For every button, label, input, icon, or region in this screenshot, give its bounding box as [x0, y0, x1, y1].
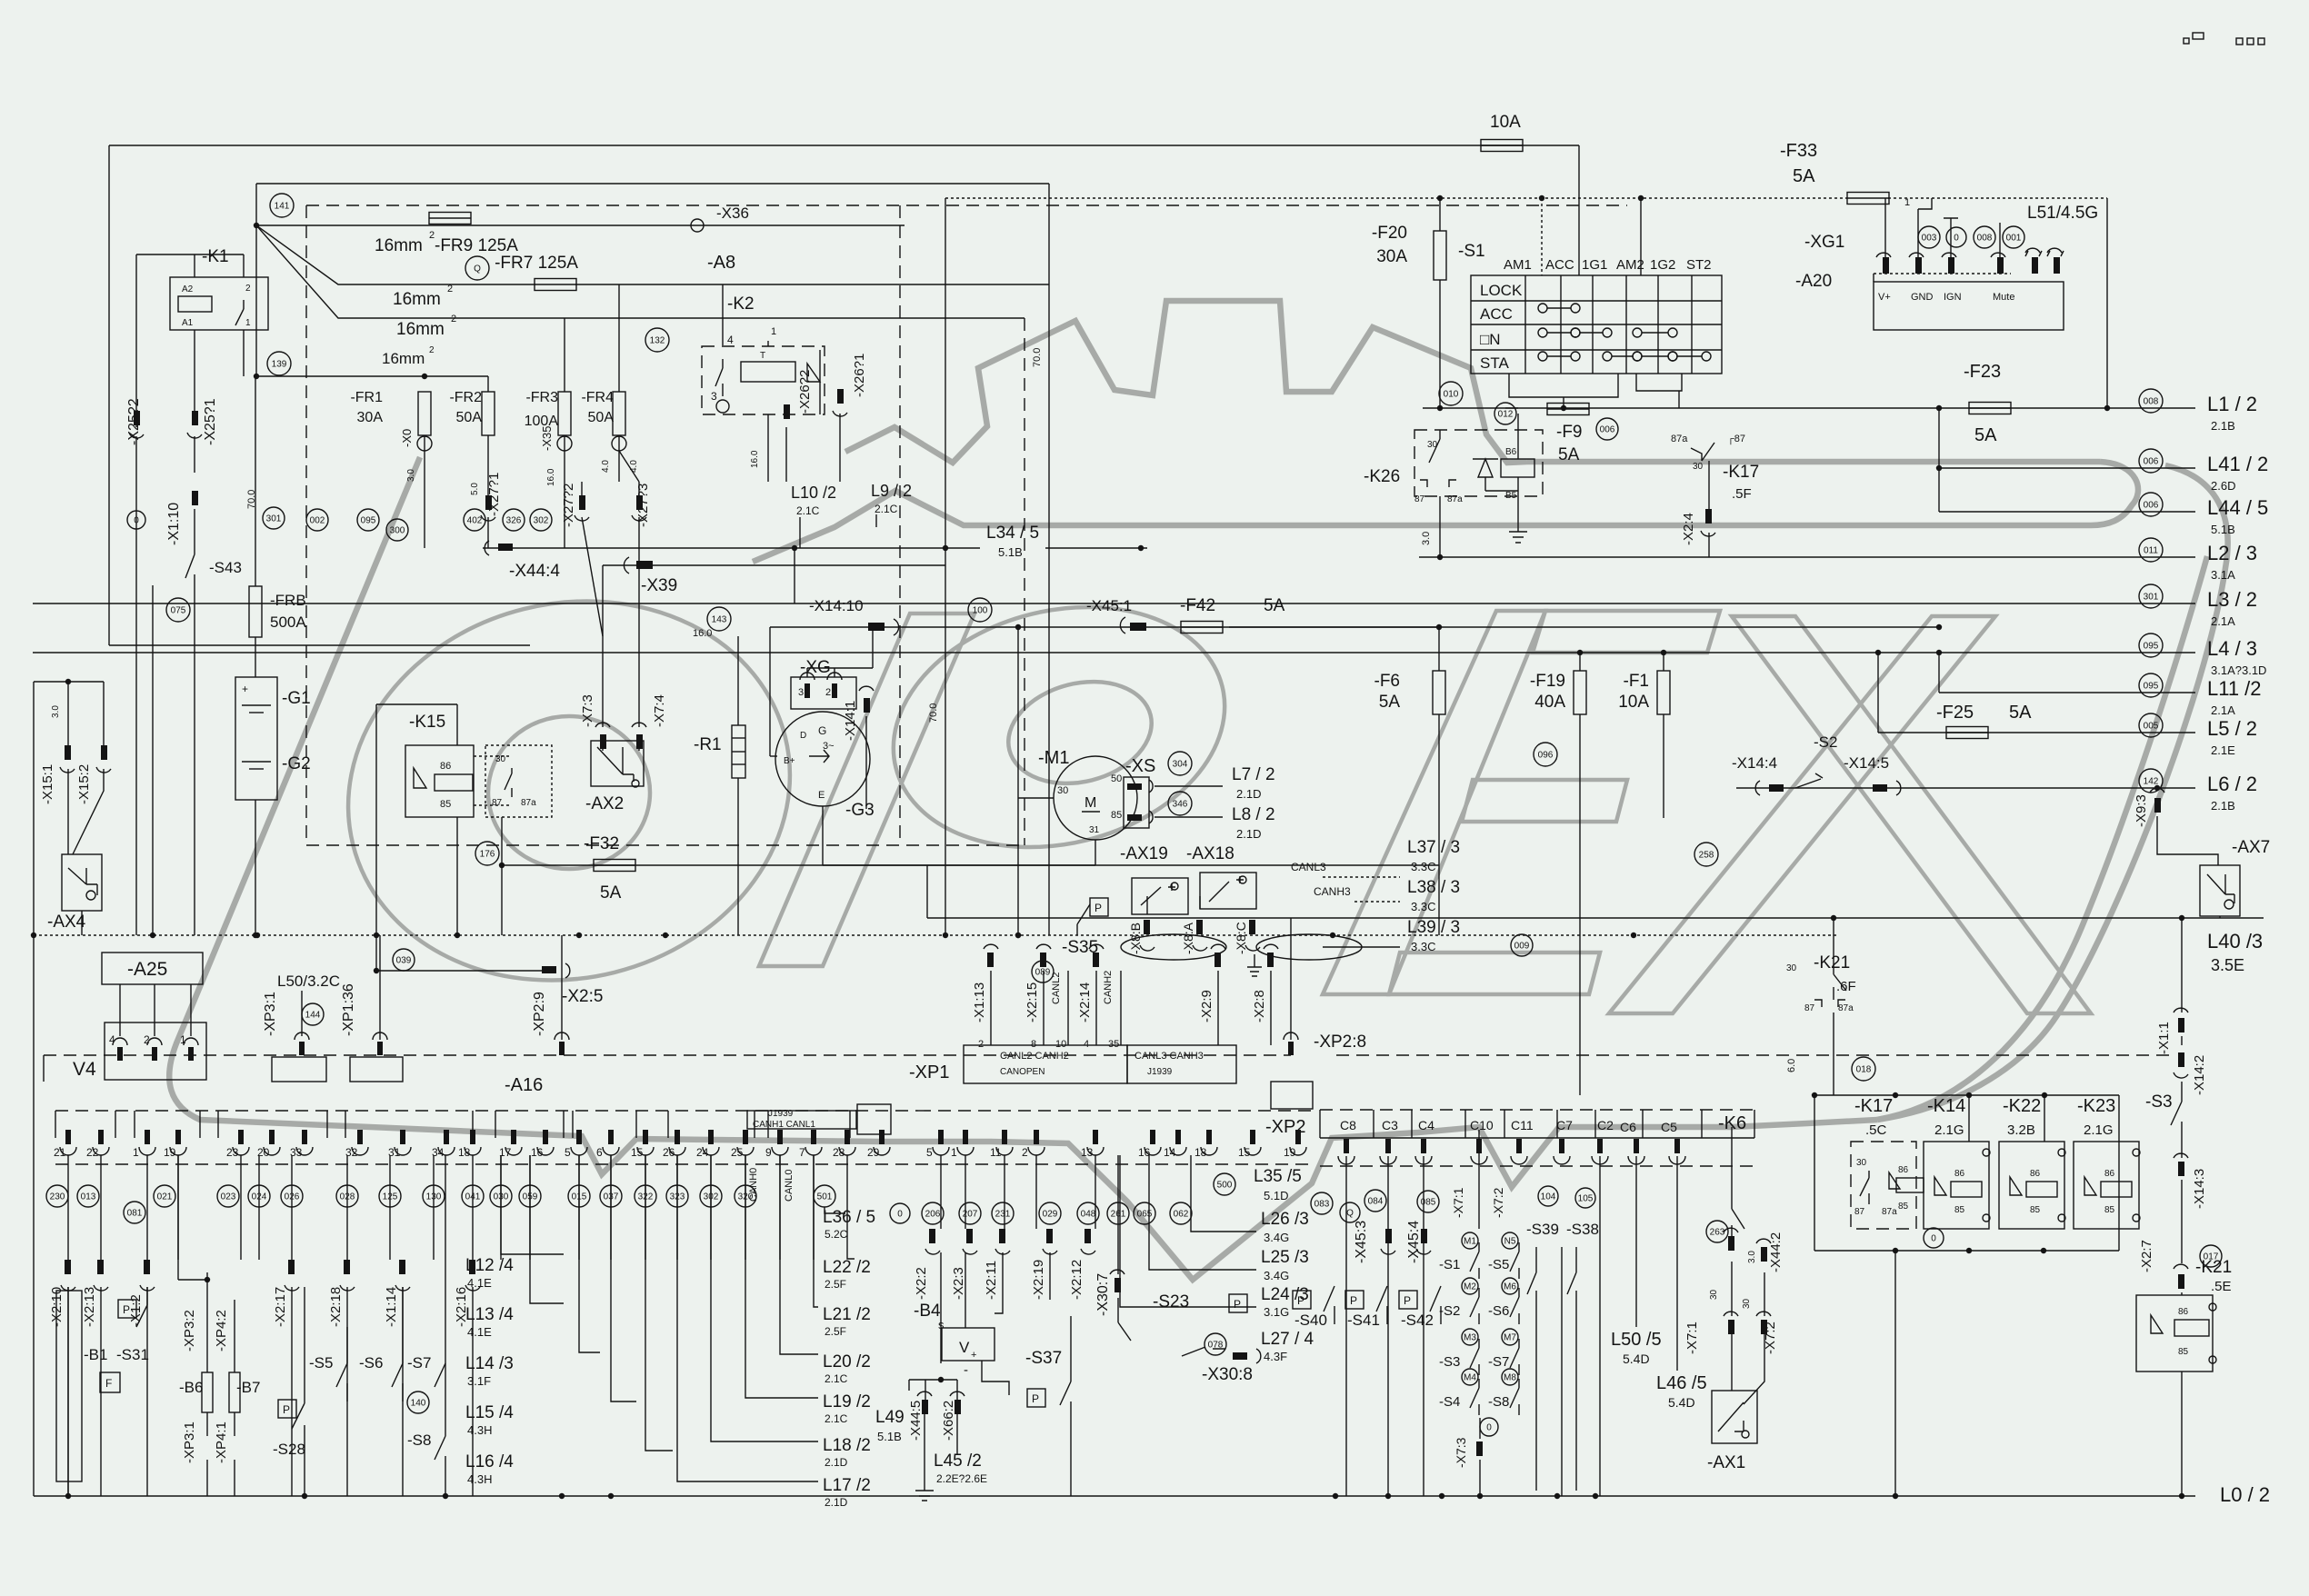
svg-text:3.1A?3.1D: 3.1A?3.1D: [2211, 663, 2266, 677]
svg-text:C10: C10: [1470, 1118, 1494, 1132]
svg-text:86: 86: [2178, 1307, 2189, 1317]
svg-text:L50/3.2C: L50/3.2C: [277, 973, 340, 990]
ignition contacts: [1538, 304, 1547, 313]
svg-text:085: 085: [1421, 1198, 1436, 1208]
svg-text:CANH0: CANH0: [748, 1168, 759, 1202]
svg-text:1: 1: [1904, 197, 1910, 208]
svg-text:85: 85: [2178, 1347, 2189, 1357]
fuse -FR2 50A: [482, 392, 495, 435]
svg-text:326: 326: [506, 516, 522, 526]
svg-text:-B6: -B6: [179, 1379, 203, 1396]
svg-text:140: 140: [411, 1399, 426, 1409]
svg-text:0: 0: [1954, 234, 1959, 244]
watermark u-turn: [2091, 462, 2138, 525]
svg-text:-K21: -K21: [2195, 1258, 2232, 1277]
wire down from X44 row: [794, 548, 795, 603]
svg-text:86: 86: [440, 761, 451, 772]
svg-text:2.1D: 2.1D: [825, 1456, 848, 1469]
wire -X2:5 row: [376, 970, 554, 972]
svg-text:3.0: 3.0: [51, 705, 61, 718]
connector circles X0/X35: [417, 436, 432, 451]
box -AX1: [1712, 1391, 1757, 1443]
node 139 junction: [267, 352, 291, 375]
svg-text:132: 132: [650, 336, 665, 346]
svg-text:206: 206: [925, 1210, 941, 1220]
dashed bus V4/XP row: [44, 1054, 1291, 1056]
svg-text:87a: 87a: [521, 798, 536, 808]
svg-text:L8 / 2: L8 / 2: [1232, 805, 1275, 824]
svg-text:231: 231: [995, 1210, 1011, 1220]
svg-text:-X36: -X36: [716, 204, 749, 222]
svg-text:-K22: -K22: [2003, 1096, 2041, 1116]
wire X1:10 branch: [152, 585, 154, 935]
box XP1:36: [350, 1057, 403, 1082]
svg-text:3.3C: 3.3C: [1411, 900, 1435, 913]
svg-text:2: 2: [245, 284, 251, 294]
svg-text:16mm: 16mm: [393, 290, 441, 309]
svg-text:P: P: [1095, 902, 1102, 914]
svg-text:-X2:17: -X2:17: [273, 1287, 288, 1327]
svg-text:.5F: .5F: [1732, 486, 1752, 502]
decorative marks top right: [2184, 38, 2189, 44]
svg-text:2.5F: 2.5F: [825, 1278, 846, 1291]
node L5/2 rail: [1878, 732, 2195, 733]
svg-text:-K15: -K15: [409, 713, 445, 732]
svg-text:-S3: -S3: [1439, 1354, 1460, 1370]
circled codes XP2 right: [1214, 1173, 1235, 1195]
wire K2 down: [767, 414, 769, 482]
svg-text:87: 87: [492, 798, 503, 808]
ignition table bottom bracket: [1509, 374, 1618, 397]
svg-text:C11: C11: [1511, 1118, 1534, 1132]
svg-text:P: P: [1404, 1294, 1411, 1307]
svg-text:-X1:10: -X1:10: [166, 503, 182, 545]
svg-text:-S8: -S8: [1488, 1394, 1509, 1410]
svg-text:-XP4:2: -XP4:2: [214, 1310, 229, 1352]
svg-text:L5 / 2: L5 / 2: [2207, 717, 2257, 740]
svg-text:M1: M1: [1464, 1237, 1476, 1247]
box K15 coil: [405, 745, 474, 817]
svg-text:-X45:3: -X45:3: [1354, 1221, 1369, 1263]
svg-text:P: P: [123, 1303, 130, 1316]
svg-text:L49: L49: [875, 1408, 905, 1427]
watermark swoosh left-bottom: [169, 457, 1877, 1280]
svg-text:-X14:2: -X14:2: [2192, 1055, 2207, 1095]
svg-text:-S23: -S23: [1153, 1292, 1189, 1312]
svg-text:3.0: 3.0: [1747, 1251, 1757, 1263]
svg-text:-X35: -X35: [540, 426, 554, 451]
svg-text:ACC: ACC: [1545, 257, 1574, 273]
svg-text:176: 176: [480, 850, 495, 860]
svg-text:-FR4: -FR4: [581, 390, 614, 405]
watermark letter O: [307, 555, 830, 1026]
svg-text:2.1D: 2.1D: [825, 1496, 848, 1509]
svg-text:C7: C7: [1556, 1118, 1573, 1132]
svg-text:003: 003: [1922, 234, 1937, 244]
svg-text:2.1G: 2.1G: [1934, 1122, 1964, 1138]
node L2 / 3 rail label: [2139, 538, 2163, 562]
svg-text:-X2:7: -X2:7: [2139, 1240, 2154, 1272]
switch -S31 with P: [118, 1300, 136, 1318]
fuse -F33 5A: [1847, 193, 1889, 204]
svg-text:2: 2: [429, 345, 435, 355]
wire -X44:4 row / L34: [483, 547, 980, 549]
svg-text:L19 /2: L19 /2: [823, 1392, 871, 1411]
svg-text:3.2B: 3.2B: [2007, 1122, 2035, 1138]
wire X7:3 bottom: [1479, 1418, 1481, 1439]
svg-text:87a: 87a: [1882, 1207, 1897, 1217]
svg-text:L38 / 3: L38 / 3: [1407, 878, 1460, 897]
svg-text:-K26: -K26: [1364, 467, 1400, 486]
svg-text:2: 2: [1022, 1146, 1028, 1159]
svg-text:C4: C4: [1418, 1118, 1434, 1132]
svg-text:2.1A: 2.1A: [2211, 703, 2235, 717]
wire K21 to L0: [2181, 1372, 2183, 1496]
svg-text:1: 1: [245, 318, 251, 328]
svg-text:500: 500: [1217, 1181, 1233, 1191]
circled 0: [127, 511, 145, 529]
svg-text:207: 207: [963, 1210, 978, 1220]
svg-text:C6: C6: [1620, 1120, 1636, 1134]
svg-text:-S4: -S4: [1439, 1394, 1460, 1410]
svg-text:2: 2: [451, 314, 456, 324]
circled wire codes row: [263, 507, 285, 529]
svg-text:V4: V4: [73, 1059, 96, 1080]
svg-text:L18 /2: L18 /2: [823, 1436, 871, 1455]
svg-text:500A: 500A: [270, 613, 306, 631]
svg-text:-XP3:1: -XP3:1: [263, 992, 278, 1036]
wire XP1:36 up: [379, 935, 381, 1040]
outer frame / 10A supply rail: [109, 145, 1579, 146]
svg-text:GND: GND: [1911, 292, 1934, 303]
svg-text:16mm: 16mm: [375, 236, 423, 255]
svg-text:2.1C: 2.1C: [875, 503, 898, 515]
svg-text:86: 86: [1954, 1169, 1965, 1179]
svg-text:5A: 5A: [1793, 166, 1815, 186]
rail to -F20/-F33: [945, 197, 1847, 199]
svg-text:302: 302: [534, 516, 549, 526]
ground K26: [1509, 532, 1527, 543]
watermark gear outline: [845, 301, 1527, 463]
svg-text:009: 009: [1514, 942, 1530, 952]
svg-text:0: 0: [1931, 1234, 1936, 1244]
A20 pins: [1883, 257, 1889, 274]
svg-text:-X26?1: -X26?1: [852, 354, 867, 397]
svg-text:-K1: -K1: [202, 247, 229, 266]
relay block right edge: [2118, 1095, 2120, 1251]
svg-text:3.1A: 3.1A: [2211, 568, 2235, 582]
svg-text:L17 /2: L17 /2: [823, 1476, 871, 1495]
connector -XS: [1124, 777, 1149, 828]
svg-text:C3: C3: [1382, 1118, 1398, 1132]
svg-text:-K23: -K23: [2077, 1096, 2115, 1116]
svg-text:346: 346: [1173, 800, 1188, 810]
fuse -F25 5A: [1946, 727, 1988, 739]
svg-text:3.0: 3.0: [406, 469, 416, 482]
svg-text:402: 402: [467, 516, 483, 526]
svg-text:P: P: [1350, 1294, 1357, 1307]
svg-text:T: T: [760, 351, 765, 361]
svg-text:3.1G: 3.1G: [1264, 1305, 1289, 1319]
stair wires to L12..L16: [501, 1155, 564, 1254]
svg-text:30: 30: [1709, 1289, 1719, 1300]
svg-text:096: 096: [1538, 751, 1554, 761]
svg-text:L26 /3: L26 /3: [1261, 1210, 1309, 1229]
circled wire codes under -A16: [46, 1185, 68, 1207]
svg-text:-FR1: -FR1: [350, 390, 383, 405]
svg-text:-FR7 125A: -FR7 125A: [495, 254, 578, 273]
svg-text:L7 / 2: L7 / 2: [1232, 765, 1275, 784]
svg-text:013: 013: [81, 1192, 96, 1202]
circled 263: [1706, 1221, 1728, 1242]
svg-text:-A25: -A25: [127, 959, 167, 980]
svg-text:3.3C: 3.3C: [1411, 860, 1435, 873]
contact K26: [1429, 430, 1440, 463]
svg-text:L11 /2: L11 /2: [2207, 677, 2262, 700]
svg-text:G: G: [818, 724, 826, 737]
svg-text:.5E: .5E: [2211, 1279, 2232, 1294]
node L6 / 2 rail label: [2139, 769, 2163, 793]
svg-text:Q: Q: [1346, 1209, 1354, 1219]
svg-text:-X44:4: -X44:4: [509, 562, 560, 581]
svg-text:30: 30: [1786, 963, 1797, 973]
svg-text:CANL3 CANH3: CANL3 CANH3: [1135, 1051, 1204, 1062]
svg-text:-X14:1: -X14:1: [843, 701, 858, 741]
svg-text:16mm: 16mm: [382, 350, 425, 367]
svg-text:2.1G: 2.1G: [2084, 1122, 2114, 1138]
svg-text:-K2: -K2: [727, 294, 755, 314]
wire F33 to L1: [2106, 198, 2108, 408]
svg-text:30A: 30A: [1376, 247, 1407, 266]
svg-text:-AX7: -AX7: [2232, 838, 2270, 857]
svg-text:-X45:4: -X45:4: [1406, 1221, 1422, 1263]
wire 70.0 vertical: [945, 198, 946, 935]
watermark swoosh right curve: [1877, 556, 2207, 1120]
svg-text:-AX1: -AX1: [1707, 1453, 1745, 1472]
svg-text:L36 / 5: L36 / 5: [823, 1208, 875, 1227]
svg-text:L9 / 2: L9 / 2: [871, 482, 912, 500]
svg-text:2.1C: 2.1C: [825, 1372, 848, 1385]
svg-text:C8: C8: [1340, 1118, 1356, 1132]
wire A8 left edge: [255, 184, 257, 376]
svg-text:-S5: -S5: [1488, 1257, 1509, 1272]
circled 143 + 16.0: [707, 607, 731, 631]
svg-text:2.1C: 2.1C: [796, 504, 820, 517]
svg-text:-X7:1: -X7:1: [1451, 1187, 1465, 1218]
svg-text:-R1: -R1: [694, 735, 722, 754]
fuse -FR4 50A: [613, 392, 625, 435]
svg-text:5.1B: 5.1B: [877, 1430, 902, 1443]
node L44 / 5 rail label: [2139, 493, 2163, 516]
svg-text:STA: STA: [1480, 354, 1509, 372]
svg-text:M3: M3: [1464, 1333, 1476, 1343]
svg-text:-F19: -F19: [1530, 672, 1565, 691]
svg-text:L20 /2: L20 /2: [823, 1352, 871, 1372]
wire X0 to X44 row: [424, 495, 425, 548]
svg-text:ACC: ACC: [1480, 305, 1513, 323]
svg-text:-X8:A: -X8:A: [1181, 922, 1195, 954]
svg-text:-S8: -S8: [407, 1431, 431, 1449]
svg-text:4.0: 4.0: [629, 460, 639, 473]
svg-text:-K17: -K17: [1854, 1096, 1893, 1116]
fuse -F19 40A: [1574, 671, 1586, 714]
svg-text:2: 2: [825, 687, 831, 698]
svg-text:105: 105: [1578, 1194, 1594, 1204]
svg-text:095: 095: [2144, 682, 2159, 692]
svg-text:-AX19: -AX19: [1120, 844, 1168, 863]
box XP2:8: [1271, 1082, 1313, 1109]
wire K2 pin4: [722, 284, 724, 345]
wires relay block down to L0: [1894, 1251, 1896, 1496]
svg-text:-X2:2: -X2:2: [914, 1267, 929, 1300]
svg-text:-AX4: -AX4: [47, 913, 86, 932]
svg-text:3: 3: [798, 687, 804, 698]
watermark letter E: [1533, 611, 1720, 653]
svg-text:-X44:5: -X44:5: [908, 1401, 924, 1441]
svg-text:-X7:1: -X7:1: [1684, 1322, 1700, 1354]
svg-text:021: 021: [157, 1192, 173, 1202]
box XP1 CAN: [964, 1045, 1127, 1083]
svg-text:-XP1:36: -XP1:36: [341, 983, 356, 1036]
svg-text:16.0: 16.0: [693, 628, 712, 639]
circled 176: [475, 842, 499, 865]
svg-text:L4 / 3: L4 / 3: [2207, 637, 2257, 660]
svg-text:J1939: J1939: [1147, 1067, 1173, 1077]
svg-text:50: 50: [1111, 773, 1122, 784]
node L44/5 rail: [1939, 511, 2195, 513]
svg-text:304: 304: [1173, 760, 1188, 770]
node L11 /2 rail label: [2139, 673, 2163, 697]
svg-text:35: 35: [1108, 1039, 1119, 1050]
svg-text:-XP2: -XP2: [1265, 1117, 1305, 1137]
svg-text:5.2C: 5.2C: [825, 1228, 848, 1241]
svg-text:P: P: [1234, 1298, 1241, 1311]
svg-text:-XP3:2: -XP3:2: [182, 1310, 197, 1352]
ignition switch table: [1471, 275, 1722, 374]
svg-text:5.4D: 5.4D: [1623, 1352, 1650, 1366]
svg-text:L46 /5: L46 /5: [1656, 1373, 1707, 1393]
svg-text:2.1D: 2.1D: [1236, 787, 1261, 801]
svg-text:-X14:10: -X14:10: [809, 597, 864, 614]
svg-text:006: 006: [2144, 457, 2159, 467]
svg-text:16.0: 16.0: [546, 468, 556, 486]
M/N circles and S1..S8 switch chain: [1462, 1232, 1478, 1249]
svg-text:□N: □N: [1480, 331, 1501, 348]
svg-text:-: -: [964, 1362, 968, 1378]
svg-text:16mm: 16mm: [396, 320, 445, 339]
svg-text:011: 011: [2144, 546, 2158, 556]
svg-text:5: 5: [565, 1146, 571, 1159]
generator -G3: [775, 712, 870, 806]
node L41/2 rail: [1939, 467, 2195, 469]
svg-text:023: 023: [221, 1192, 236, 1202]
svg-text:5A: 5A: [1558, 445, 1580, 464]
svg-text:87a: 87a: [1447, 494, 1463, 504]
svg-text:-X2:11: -X2:11: [984, 1261, 999, 1300]
P box S35: [1090, 898, 1108, 916]
svg-text:87: 87: [1854, 1207, 1865, 1217]
watermark letter P: [759, 613, 975, 966]
svg-text:87a: 87a: [1671, 434, 1688, 444]
svg-text:-XS: -XS: [1125, 756, 1155, 776]
svg-text:L12 /4: L12 /4: [465, 1256, 514, 1275]
svg-text:062: 062: [1174, 1210, 1189, 1220]
wire A8 box top: [256, 183, 1049, 185]
diode K15: [414, 768, 426, 788]
svg-text:-B1: -B1: [84, 1346, 107, 1363]
ground X8C: [1247, 954, 1262, 976]
svg-text:-X30:8: -X30:8: [1202, 1365, 1253, 1384]
box -AX2: [591, 741, 644, 786]
node L4 / 3 rail label: [2139, 633, 2163, 657]
svg-text:M8: M8: [1504, 1373, 1516, 1383]
wire XS 85 to L8: [1154, 816, 1223, 818]
svg-text:L1 / 2: L1 / 2: [2207, 393, 2257, 415]
svg-text:V+: V+: [1878, 292, 1891, 303]
svg-text:85: 85: [2104, 1205, 2115, 1215]
watermark swoosh lower line: [753, 491, 2091, 562]
connector strip -XP2 pins: [918, 1110, 1314, 1112]
svg-text:-FR3: -FR3: [525, 390, 558, 405]
svg-text:-S28: -S28: [273, 1441, 305, 1458]
svg-text:-X2:19: -X2:19: [1031, 1260, 1046, 1300]
svg-text:-S39: -S39: [1526, 1221, 1559, 1238]
svg-text:-X2:13: -X2:13: [82, 1287, 97, 1327]
svg-text:L51/4.5G: L51/4.5G: [2027, 204, 2098, 223]
svg-text:-X14:5: -X14:5: [1844, 754, 1889, 772]
svg-text:-F25: -F25: [1936, 703, 1974, 723]
svg-text:CANL2: CANL2: [1051, 973, 1062, 1004]
svg-text:86: 86: [2030, 1169, 2041, 1179]
svg-text:-S7: -S7: [407, 1354, 431, 1372]
svg-text:+: +: [242, 683, 248, 695]
wire V+ up: [1884, 198, 1886, 257]
svg-text:3.1F: 3.1F: [467, 1374, 491, 1388]
node L41 / 2 rail label: [2139, 449, 2163, 473]
svg-text:002: 002: [310, 516, 325, 526]
svg-text:IGN: IGN: [1944, 292, 1962, 303]
wire XP2:8 up: [1290, 918, 1292, 1040]
svg-text:31: 31: [1089, 825, 1100, 835]
svg-text:2.6D: 2.6D: [2211, 479, 2235, 493]
watermark letter X: [1732, 616, 2091, 1013]
svg-text:4.3H: 4.3H: [467, 1472, 492, 1486]
relay block bottom: [1814, 1250, 2119, 1252]
svg-text:P: P: [283, 1403, 290, 1416]
fuse 10A: [1481, 140, 1523, 152]
svg-text:-G3: -G3: [845, 801, 875, 820]
wire K1 coil: [194, 254, 195, 277]
wire AM1 up: [1541, 198, 1543, 275]
svg-text:-XP3:1: -XP3:1: [182, 1421, 197, 1463]
fuse -FR7 125A: [535, 279, 576, 291]
svg-text:-S3: -S3: [2145, 1092, 2173, 1112]
svg-text:5A: 5A: [1264, 596, 1285, 615]
wire/fuse -FR7: [256, 225, 535, 284]
svg-text:F: F: [105, 1377, 112, 1390]
box inner right edge: [1048, 184, 1050, 935]
svg-text:P: P: [1032, 1392, 1039, 1405]
svg-text:3.0: 3.0: [1421, 532, 1432, 545]
svg-text:-S37: -S37: [1025, 1349, 1062, 1368]
svg-text:-XP1: -XP1: [909, 1062, 949, 1082]
P-switches -S40 -S41 -S42: [1293, 1291, 1311, 1309]
svg-text:Mute: Mute: [1993, 292, 2014, 303]
svg-text:075: 075: [171, 606, 186, 616]
wire XS 50 to L7: [1154, 785, 1223, 787]
svg-text:-X15:2: -X15:2: [76, 764, 92, 804]
svg-text:-K14: -K14: [1927, 1096, 1965, 1116]
